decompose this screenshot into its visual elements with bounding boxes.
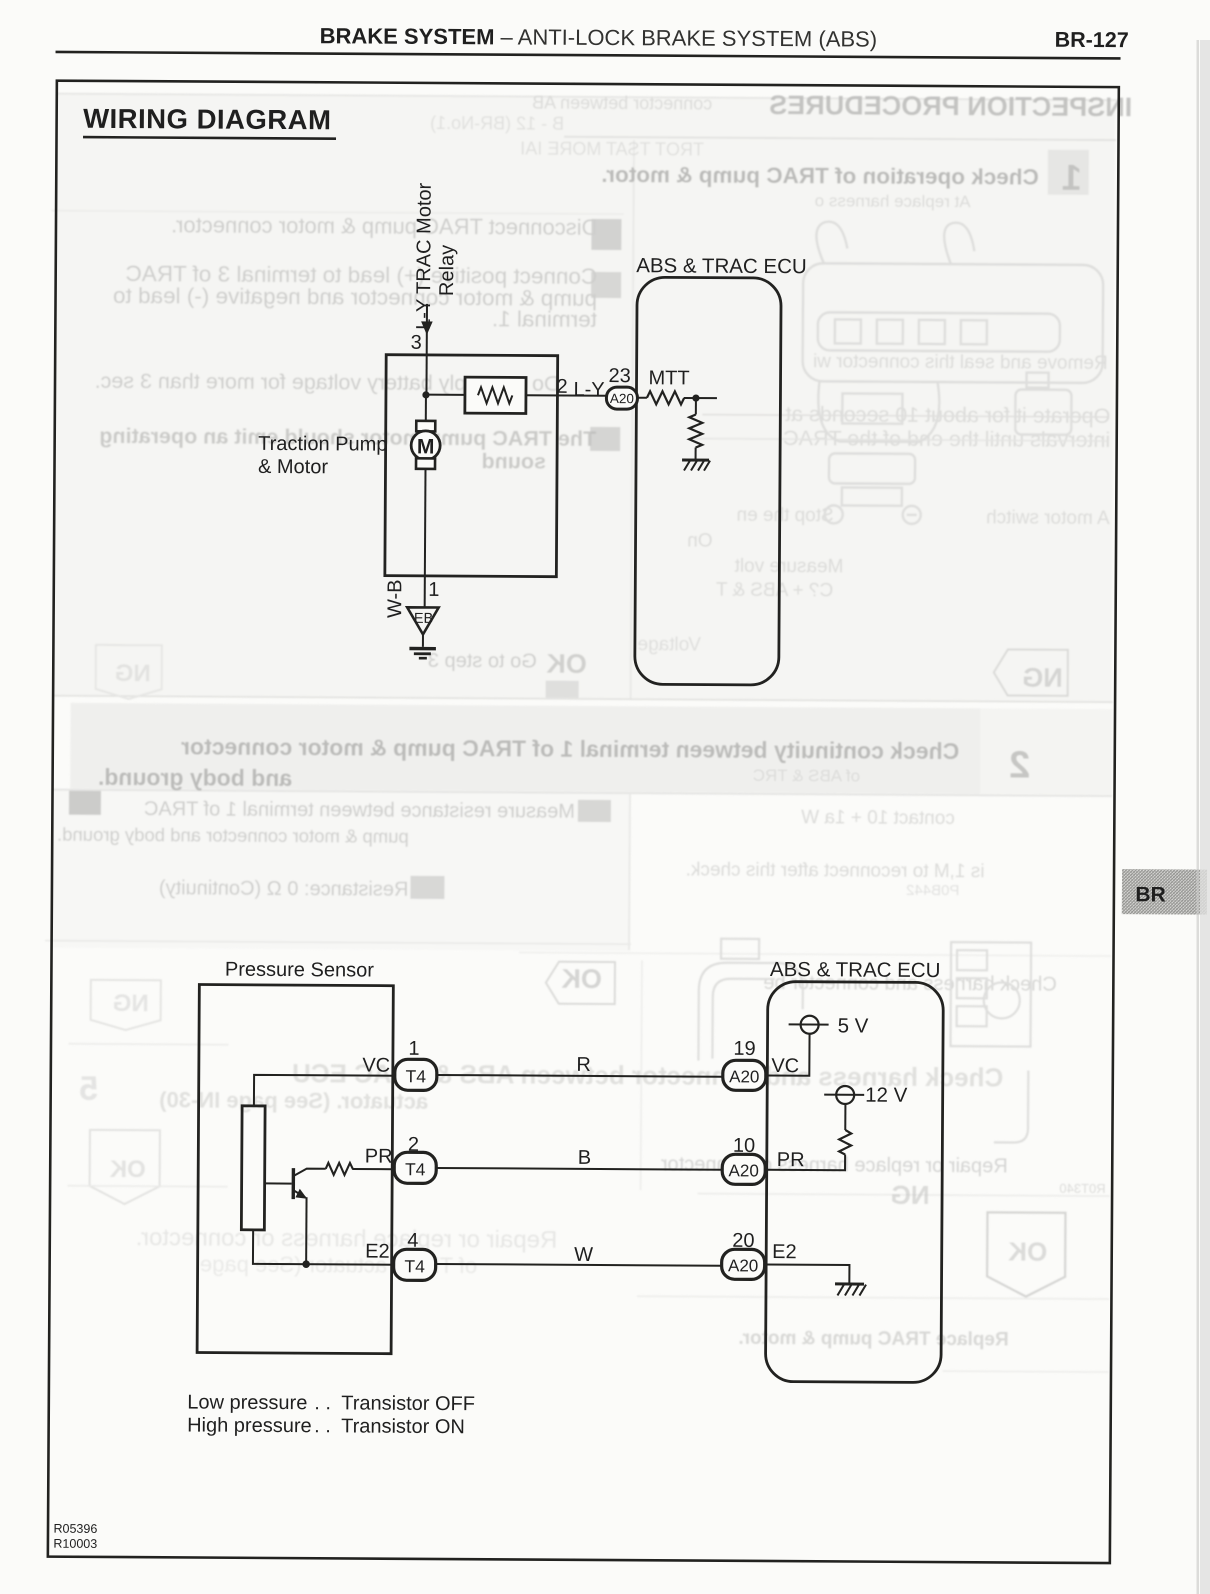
- svg-text:Relay: Relay: [436, 245, 458, 296]
- wire: E2 into ECU to chassis ground: [765, 1264, 849, 1283]
- svg-text:5 V: 5 V: [838, 1014, 869, 1037]
- svg-text:and body ground.: and body ground.: [98, 764, 292, 791]
- svg-text:is 1,M to reconnect after this: is 1,M to reconnect after this check.: [686, 859, 985, 882]
- page header rule: [56, 51, 1121, 60]
- svg-text:A20: A20: [729, 1161, 759, 1180]
- svg-text:A20: A20: [729, 1067, 759, 1086]
- pressure sensor box: [197, 985, 393, 1354]
- connector T4 pin 1 (oval): [395, 1059, 437, 1090]
- svg-text:A motor switch: A motor switch: [986, 507, 1110, 529]
- wire: emitter down to E2 rail: [305, 1197, 307, 1264]
- svg-text:NG: NG: [113, 990, 149, 1017]
- svg-text:Check operation of TRAC pump &: Check operation of TRAC pump & motor.: [601, 162, 1039, 190]
- svg-text:Check continuity between termi: Check continuity between terminal 1 of T…: [181, 733, 959, 764]
- wire: resistor to ECU pin 23 (A20): [526, 394, 607, 396]
- svg-text:Measure volt: Measure volt: [734, 556, 844, 578]
- wire: supply into relay terminal 3: [425, 304, 428, 395]
- svg-text:L-Y: L-Y: [573, 379, 604, 401]
- arrowhead on supply wire: [421, 321, 433, 335]
- wire: EB to earth: [422, 634, 424, 647]
- wire R: T4-1 to A20-19: [437, 1075, 723, 1077]
- pull-up resistor (vertical): [839, 1130, 851, 1155]
- svg-text:5: 5: [79, 1070, 98, 1108]
- svg-text:A20: A20: [728, 1256, 758, 1275]
- svg-text:OK: OK: [546, 649, 587, 679]
- wire: pot top to VC rail: [254, 1075, 394, 1107]
- connector A20 pin 20 (oval): [722, 1249, 765, 1279]
- svg-text:1: 1: [408, 1038, 419, 1060]
- svg-text:WIRING DIAGRAM: WIRING DIAGRAM: [83, 103, 332, 136]
- svg-text:OK: OK: [1008, 1236, 1047, 1266]
- node: junction dot at terminal 3 branch: [422, 391, 429, 398]
- wire: junction to resistor: [426, 394, 465, 396]
- 12V source circle: [836, 1086, 854, 1104]
- transistor Q1 base bar: [292, 1168, 296, 1199]
- 5V source circle: [801, 1016, 819, 1034]
- potentiometer element (rect): [241, 1106, 265, 1230]
- scan edge artifact: [1197, 40, 1200, 1594]
- mirrored: step 1 title: [601, 162, 1039, 190]
- svg-text:pump & motor connector and bod: pump & motor connector and body ground.: [57, 824, 409, 847]
- svg-text:sound: sound: [481, 449, 546, 473]
- svg-text:VC: VC: [362, 1055, 390, 1077]
- svg-text:Replace TRAC pump & motor.: Replace TRAC pump & motor.: [738, 1328, 1008, 1351]
- NG pentagon bleed top right: [1022, 663, 1063, 693]
- svg-text:12 V: 12 V: [865, 1084, 908, 1107]
- svg-text:Repair or replace harness or c: Repair or replace harness or connector: [661, 1153, 1008, 1177]
- wire: resistor to T4 pin 2: [352, 1168, 394, 1170]
- svg-text:P0B442: P0B442: [906, 882, 959, 899]
- connector T4 pin 4 (oval): [394, 1249, 436, 1280]
- svg-text:MTT: MTT: [648, 367, 689, 389]
- svg-text:3: 3: [411, 332, 422, 354]
- svg-text:Measure resistance between ter: Measure resistance between terminal 1 of…: [144, 798, 575, 823]
- svg-text:INSPECTION PROCEDURES: INSPECTION PROCEDURES: [769, 90, 1132, 122]
- svg-text:23: 23: [609, 365, 631, 387]
- svg-text:NG: NG: [1022, 663, 1063, 693]
- mirrored: INSPECTION PROCEDURES: [769, 90, 1132, 122]
- step 1 body: [591, 219, 621, 250]
- wire: resistor to 12V: [844, 1104, 846, 1130]
- svg-text:T4: T4: [405, 1159, 426, 1179]
- ground EB (triangle): [407, 607, 439, 634]
- svg-text:terminal 1.: terminal 1.: [492, 306, 597, 332]
- chassis ground (hatched): [682, 458, 709, 461]
- connector T4 pin 2 (oval): [394, 1152, 436, 1183]
- connector A20 pin 10 (oval): [722, 1154, 765, 1184]
- svg-text:BRAKE SYSTEM – ANTI-LOCK BRAKE: BRAKE SYSTEM – ANTI-LOCK BRAKE SYSTEM (A…: [320, 23, 878, 51]
- svg-text:TROT TSAT MORE IAI: TROT TSAT MORE IAI: [520, 138, 704, 159]
- svg-text:Transistor ON: Transistor ON: [341, 1415, 465, 1438]
- svg-text:L-Y TRAC Motor: L-Y TRAC Motor: [413, 182, 436, 330]
- svg-text:R05396: R05396: [53, 1522, 97, 1536]
- svg-text:Pressure Sensor: Pressure Sensor: [225, 959, 374, 982]
- wire: relay pin 1 to body ground: [424, 576, 426, 608]
- svg-text:& Motor: & Motor: [258, 456, 328, 478]
- big light: check harness / actuator: [292, 1058, 1003, 1092]
- BR thumb tab: [1122, 869, 1207, 915]
- bottom half bleed: [561, 964, 602, 994]
- wire: node down to pull resistor: [695, 398, 697, 414]
- bleed connector left of ECU2: [698, 939, 1031, 1143]
- svg-text:OK: OK: [109, 1156, 146, 1183]
- svg-text:2: 2: [1009, 744, 1030, 786]
- node: emitter junction on E2 rail: [302, 1260, 310, 1268]
- earth ground bars: [409, 647, 436, 651]
- label W-B (rotated): [384, 579, 406, 618]
- svg-text:Disconnect TRAC pump & motor c: Disconnect TRAC pump & motor connector.: [171, 212, 597, 240]
- svg-text:R: R: [576, 1054, 591, 1076]
- wire: resistor to chassis ground: [695, 448, 697, 460]
- svg-text:ABS & TRAC ECU: ABS & TRAC ECU: [636, 254, 807, 278]
- svg-text:B: B: [578, 1147, 591, 1169]
- svg-text:BR: BR: [1135, 883, 1165, 906]
- relay box (Traction pump & motor unit): [385, 355, 558, 577]
- step 2 banner: [181, 733, 959, 764]
- svg-text:Resistance: 0 Ω (Continuity): Resistance: 0 Ω (Continuity): [159, 877, 409, 901]
- motor M (traction pump motor): [416, 421, 435, 432]
- wire: VC into ECU up to 5V: [766, 1033, 809, 1075]
- svg-text:PR: PR: [777, 1149, 805, 1171]
- wire: motor branch down: [425, 395, 427, 421]
- svg-text:OK: OK: [561, 964, 602, 994]
- wire: resistor to node: [684, 397, 717, 399]
- OK / go to step 3 bleed: [546, 649, 587, 679]
- svg-text:E2: E2: [772, 1241, 797, 1263]
- svg-text:NG: NG: [890, 1180, 929, 1210]
- svg-text:Stop the en: Stop the en: [736, 505, 833, 527]
- connector A20 pin 19 (oval): [723, 1060, 766, 1090]
- faint bleed table rules: [56, 94, 1116, 100]
- node: MTT junction dot: [692, 394, 699, 401]
- svg-text:VC: VC: [771, 1055, 799, 1077]
- svg-text:W-B: W-B: [384, 579, 406, 618]
- svg-text:A20: A20: [610, 391, 634, 406]
- svg-text:Low pressure: Low pressure: [187, 1391, 307, 1414]
- svg-text:of ABS & TRC: of ABS & TRC: [753, 766, 861, 786]
- svg-text:M: M: [417, 435, 435, 458]
- svg-text:T4: T4: [406, 1066, 427, 1086]
- replace TRAC pump & motor: [738, 1328, 1008, 1351]
- svg-text:ABS & TRAC ECU: ABS & TRAC ECU: [770, 958, 941, 982]
- svg-text:Voltage: Voltage: [637, 634, 701, 655]
- ECU U1 body (top, rounded): [635, 277, 781, 685]
- connector A20 pin 23 (oval): [606, 387, 637, 409]
- left column faint flags: [91, 980, 161, 1030]
- wire B: T4-2 to A20-10: [436, 1168, 722, 1170]
- svg-text:B - 12 (BR-No.1): B - 12 (BR-No.1): [430, 113, 564, 134]
- svg-text:Transistor OFF: Transistor OFF: [341, 1392, 475, 1415]
- svg-text:1: 1: [428, 579, 439, 601]
- transistor collector: [294, 1169, 326, 1176]
- svg-text:1: 1: [1062, 157, 1082, 198]
- svg-text:connector between AB: connector between AB: [532, 93, 712, 114]
- bleed connector drawing, top right: [802, 222, 1104, 526]
- svg-text:R10003: R10003: [53, 1537, 97, 1551]
- transistor emitter with arrow: [294, 1191, 306, 1198]
- chassis ground (hatched) in ECU: [835, 1282, 864, 1285]
- ECU U2 body (bottom, rounded): [765, 981, 943, 1382]
- svg-text:T4: T4: [404, 1256, 425, 1276]
- svg-text:. .: . .: [314, 1392, 331, 1414]
- svg-text:2: 2: [556, 376, 567, 398]
- svg-text:19: 19: [733, 1038, 755, 1060]
- wire W: T4-4 to A20-20: [436, 1264, 722, 1266]
- resistor (vertical, to ground): [689, 415, 702, 448]
- OK pentagon bleed lower right: [987, 1212, 1066, 1296]
- label: L-Y TRAC Motor Relay (rotated): [413, 182, 436, 330]
- wire: PR into ECU to pull-up: [766, 1154, 845, 1170]
- svg-text:BR-127: BR-127: [1055, 28, 1129, 52]
- svg-text:Traction Pump: Traction Pump: [258, 433, 387, 456]
- wire: pot bottom to E2 rail: [253, 1230, 394, 1265]
- svg-text:. .: . .: [314, 1415, 331, 1437]
- svg-text:Go to step 3: Go to step 3: [428, 650, 537, 673]
- svg-text:W: W: [574, 1244, 593, 1266]
- svg-text:R0T340: R0T340: [1059, 1181, 1105, 1196]
- svg-text:contact 10 + 1a W: contact 10 + 1a W: [801, 807, 955, 829]
- svg-text:C? + ABS & T: C? + ABS & T: [715, 580, 833, 602]
- step 2 body: [69, 791, 101, 815]
- right column faint: [813, 351, 1108, 374]
- svg-text:Remove and seal this connector: Remove and seal this connector wi: [813, 351, 1108, 374]
- svg-text:High pressure: High pressure: [187, 1414, 312, 1437]
- svg-text:On: On: [687, 530, 712, 551]
- svg-text:At replace harness o: At replace harness o: [815, 191, 971, 211]
- svg-text:E2: E2: [365, 1241, 390, 1263]
- svg-text:EB: EB: [414, 611, 433, 627]
- wire: motor to relay box bottom: [424, 469, 427, 576]
- svg-text:NG: NG: [115, 660, 151, 687]
- resistor MTT (zigzag): [637, 397, 646, 399]
- resistor (boxed) in relay: [465, 377, 526, 413]
- resistor on PR line: [326, 1163, 353, 1175]
- svg-text:PR: PR: [365, 1146, 393, 1168]
- wiper wire to transistor base: [265, 1182, 292, 1184]
